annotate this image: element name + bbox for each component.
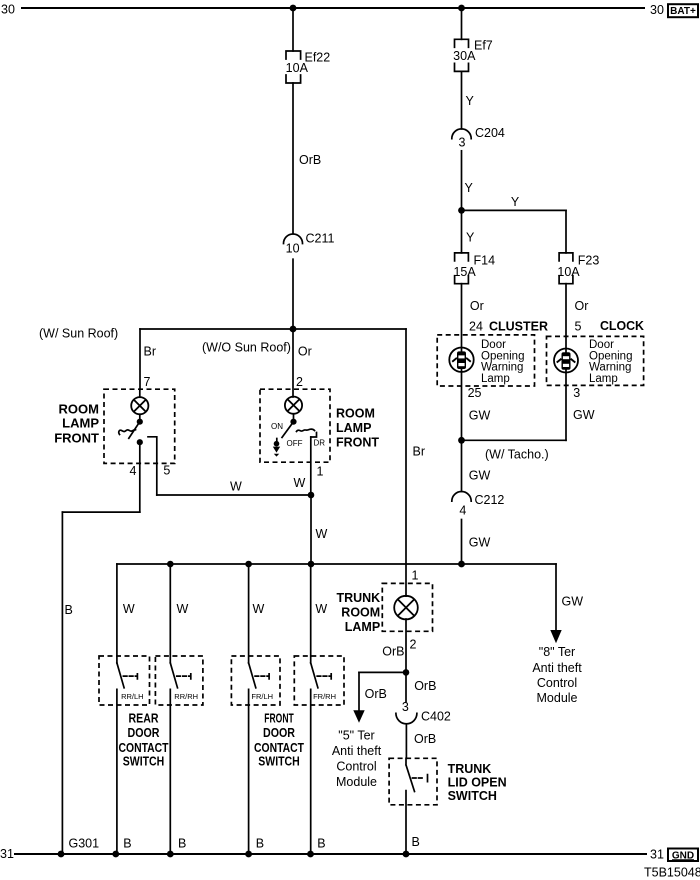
svg-text:2: 2: [296, 375, 303, 389]
svg-text:B: B: [178, 837, 186, 851]
svg-text:W: W: [316, 527, 328, 541]
svg-text:Control: Control: [537, 676, 577, 690]
svg-text:Ef22: Ef22: [305, 51, 331, 65]
svg-text:Warning: Warning: [589, 362, 631, 374]
svg-text:W: W: [315, 602, 327, 616]
svg-text:C402: C402: [421, 710, 451, 724]
svg-text:ROOM: ROOM: [336, 407, 375, 421]
svg-text:Door: Door: [589, 339, 614, 351]
svg-text:Module: Module: [336, 775, 377, 789]
svg-text:CLUSTER: CLUSTER: [489, 320, 548, 334]
svg-text:(W/O Sun Roof): (W/O Sun Roof): [202, 341, 291, 355]
svg-text:OrB: OrB: [299, 153, 321, 167]
svg-text:G301: G301: [69, 837, 100, 851]
svg-text:FRONT: FRONT: [336, 435, 379, 449]
svg-text:W: W: [294, 476, 306, 490]
svg-text:10A: 10A: [286, 61, 309, 75]
svg-text:TRUNK: TRUNK: [448, 762, 492, 776]
svg-text:Module: Module: [537, 691, 578, 705]
svg-text:31: 31: [650, 848, 664, 862]
svg-text:GW: GW: [573, 408, 595, 422]
svg-text:W: W: [253, 602, 265, 616]
svg-text:LAMP: LAMP: [62, 416, 99, 431]
svg-text:GW: GW: [562, 595, 584, 609]
svg-text:LAMP: LAMP: [336, 421, 371, 435]
svg-text:1: 1: [412, 569, 419, 583]
svg-text:5: 5: [575, 319, 582, 333]
svg-text:(W/ Tacho.): (W/ Tacho.): [485, 448, 549, 462]
svg-text:B: B: [123, 837, 131, 851]
svg-text:30: 30: [1, 3, 15, 17]
svg-text:1: 1: [317, 465, 324, 479]
svg-text:B: B: [317, 837, 325, 851]
svg-text:Opening: Opening: [589, 350, 632, 362]
svg-text:ON: ON: [271, 422, 283, 431]
svg-text:OFF: OFF: [287, 439, 303, 448]
svg-text:CLOCK: CLOCK: [600, 319, 644, 333]
svg-text:GW: GW: [469, 409, 491, 423]
svg-text:4: 4: [459, 504, 466, 518]
svg-text:C212: C212: [475, 493, 505, 507]
svg-text:REAR: REAR: [129, 711, 159, 725]
svg-text:GW: GW: [469, 469, 491, 483]
svg-text:DR: DR: [314, 439, 326, 448]
svg-text:25: 25: [468, 386, 482, 400]
svg-text:30A: 30A: [453, 49, 476, 63]
svg-text:W: W: [123, 602, 135, 616]
svg-text:C211: C211: [306, 232, 335, 246]
svg-text:FR/LH: FR/LH: [251, 692, 273, 701]
svg-text:Warning: Warning: [481, 362, 523, 374]
svg-text:F23: F23: [578, 254, 600, 268]
svg-text:OrB: OrB: [414, 679, 436, 693]
svg-text:"8" Ter: "8" Ter: [539, 645, 575, 659]
svg-text:7: 7: [144, 375, 151, 389]
svg-text:BAT+: BAT+: [670, 6, 696, 17]
svg-text:Br: Br: [413, 445, 426, 459]
svg-text:5: 5: [163, 463, 170, 477]
svg-text:Y: Y: [466, 231, 475, 245]
svg-text:Opening: Opening: [481, 350, 524, 362]
svg-text:LID OPEN: LID OPEN: [448, 776, 507, 790]
svg-text:CONTACT: CONTACT: [254, 741, 304, 755]
svg-text:SWITCH: SWITCH: [123, 755, 165, 769]
svg-text:SWITCH: SWITCH: [448, 789, 497, 803]
svg-text:DOOR: DOOR: [263, 726, 295, 740]
svg-text:Door: Door: [481, 339, 506, 351]
svg-text:3: 3: [402, 700, 409, 714]
svg-text:3: 3: [573, 386, 580, 400]
svg-text:RR/LH: RR/LH: [121, 692, 144, 701]
svg-text:Y: Y: [465, 181, 474, 195]
svg-text:Control: Control: [336, 759, 376, 773]
svg-text:B: B: [65, 603, 73, 617]
svg-text:4: 4: [130, 464, 137, 478]
svg-text:W: W: [230, 480, 242, 494]
svg-text:RR/RH: RR/RH: [174, 692, 198, 701]
svg-text:C204: C204: [475, 126, 505, 140]
svg-text:Anti theft: Anti theft: [332, 744, 382, 758]
svg-text:2: 2: [410, 638, 417, 652]
svg-text:CONTACT: CONTACT: [119, 741, 169, 755]
svg-text:Br: Br: [144, 345, 157, 359]
svg-text:Or: Or: [298, 345, 312, 359]
svg-text:FRONT: FRONT: [54, 430, 99, 445]
svg-text:Or: Or: [575, 299, 589, 313]
svg-text:ROOM: ROOM: [59, 401, 99, 416]
svg-text:(W/ Sun Roof): (W/ Sun Roof): [39, 327, 118, 341]
svg-text:FR/RH: FR/RH: [313, 692, 336, 701]
svg-text:OrB: OrB: [414, 732, 436, 746]
svg-text:31: 31: [0, 847, 14, 861]
svg-text:SWITCH: SWITCH: [258, 755, 300, 769]
svg-text:24: 24: [469, 319, 483, 333]
svg-text:10A: 10A: [557, 265, 580, 279]
svg-text:Or: Or: [470, 299, 484, 313]
svg-text:Lamp: Lamp: [481, 373, 510, 385]
svg-text:T5B15048: T5B15048: [644, 866, 700, 880]
svg-text:Anti theft: Anti theft: [532, 661, 582, 675]
svg-text:"5" Ter: "5" Ter: [338, 728, 374, 742]
svg-text:Y: Y: [511, 195, 520, 209]
svg-text:3: 3: [459, 136, 466, 150]
svg-text:DOOR: DOOR: [128, 726, 160, 740]
svg-text:LAMP: LAMP: [345, 620, 380, 634]
svg-text:OrB: OrB: [365, 687, 387, 701]
svg-text:10: 10: [286, 242, 300, 256]
svg-text:F14: F14: [474, 254, 496, 268]
svg-text:TRUNK: TRUNK: [336, 591, 380, 605]
svg-text:B: B: [256, 837, 264, 851]
svg-text:30: 30: [650, 3, 664, 17]
svg-text:15A: 15A: [453, 265, 476, 279]
svg-text:FRONT: FRONT: [264, 711, 294, 725]
svg-text:Y: Y: [466, 94, 475, 108]
svg-text:B: B: [412, 835, 420, 849]
svg-text:ROOM: ROOM: [341, 606, 380, 620]
svg-text:OrB: OrB: [382, 645, 404, 659]
svg-text:W: W: [177, 602, 189, 616]
svg-text:Lamp: Lamp: [589, 373, 618, 385]
svg-text:Ef7: Ef7: [474, 39, 493, 53]
svg-text:GW: GW: [469, 536, 491, 550]
